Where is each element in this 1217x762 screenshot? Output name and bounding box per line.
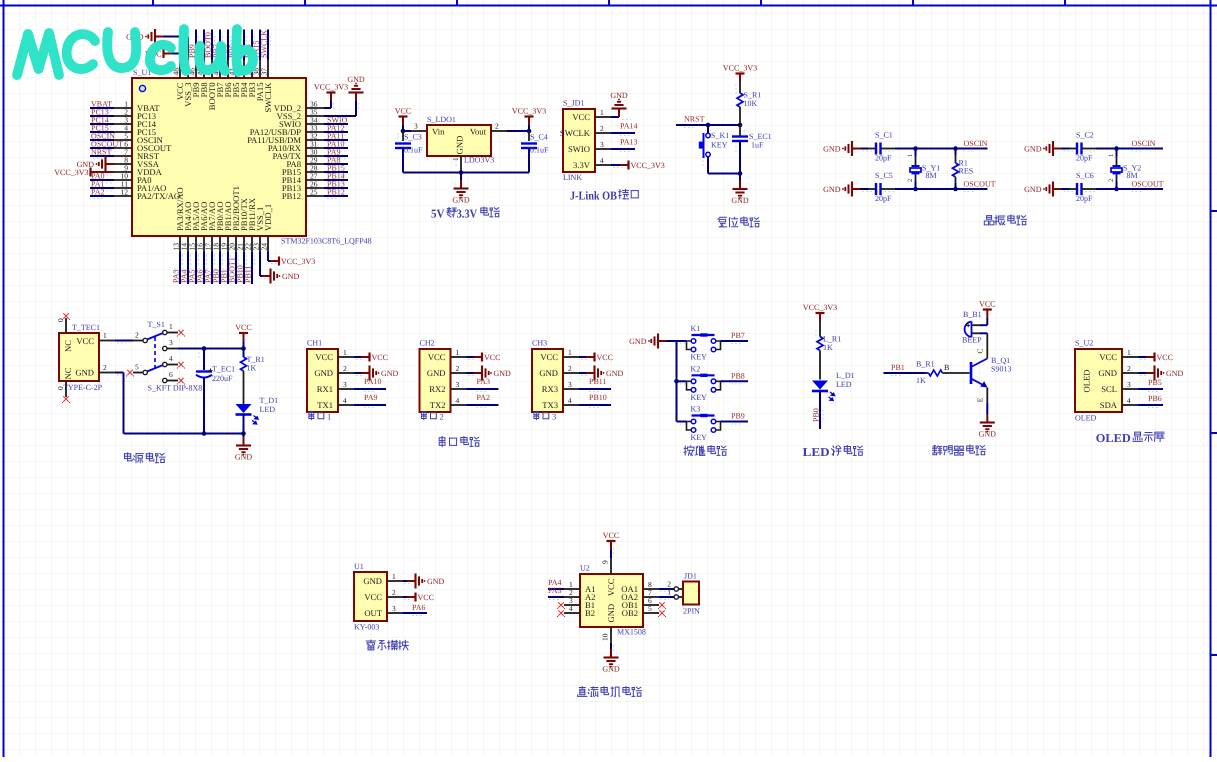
wire OSCOUT rail [1096, 188, 1163, 190]
wire pin 34 [324, 123, 348, 125]
wire K3 to PB9 [721, 421, 749, 423]
crystal S_Y2 [1116, 149, 1118, 157]
svg-text:GND: GND [314, 368, 333, 378]
U2 OLED pin 1 VCC [1122, 356, 1138, 358]
wire pin 26 [324, 187, 348, 189]
svg-text:VCC: VCC [395, 107, 411, 116]
power port VCC (power circuit) [243, 334, 245, 342]
svg-text:9: 9 [601, 560, 610, 564]
svg-text:PA2: PA2 [91, 188, 105, 197]
wire U1 pin 48 to VCC [172, 53, 180, 55]
U1 pin 40 PB4 [243, 60, 245, 78]
svg-text:LED: LED [260, 405, 276, 414]
svg-text:GND: GND [606, 369, 624, 378]
capacitor S_C5 [861, 188, 869, 190]
power port VCC (motor) [610, 542, 612, 550]
U2 OLED pin 4 SDA [1122, 404, 1138, 406]
power port VCC (hall) [407, 596, 415, 598]
U2 pin 7 OA2 [643, 596, 659, 598]
title power circuit [125, 453, 133, 461]
wire bus to K1 [677, 340, 687, 342]
wire OLED pin4 [1138, 404, 1163, 406]
connector T_TEC1 body [59, 333, 99, 381]
TEC1 pin 2 GND [99, 372, 115, 374]
svg-text:S_C2: S_C2 [1076, 131, 1094, 140]
svg-text:S_C3: S_C3 [404, 133, 422, 142]
wire ground loop [115, 372, 124, 374]
ground (S_C5) [853, 188, 861, 190]
svg-text:GND: GND [1098, 368, 1117, 378]
svg-text:1: 1 [667, 588, 671, 597]
svg-text:B: B [944, 363, 949, 372]
svg-text:PB7: PB7 [731, 331, 745, 340]
svg-text:37: 37 [260, 68, 269, 76]
U1 pin 34 SWIO [306, 123, 324, 125]
wire OA1 to JD1 pin2 [659, 588, 674, 590]
svg-text:S_C6: S_C6 [1076, 171, 1094, 180]
wire U1 pin 36 to VCC_3V3 [324, 107, 331, 109]
svg-text:1K: 1K [247, 364, 257, 373]
U1 pin 32 PA11/USB/DM [306, 139, 324, 141]
svg-text:VCC_3V3: VCC_3V3 [803, 303, 837, 312]
svg-text:B2: B2 [585, 608, 595, 618]
label serial port 2 [421, 411, 426, 420]
svg-text:U2: U2 [580, 564, 590, 573]
svg-text:GND: GND [823, 185, 841, 194]
power port VCC_3V3 (LDO output) [528, 117, 530, 125]
svg-text:5: 5 [648, 604, 652, 613]
wire pin 31 [324, 147, 348, 149]
svg-text:K1: K1 [691, 324, 701, 333]
svg-text:5: 5 [135, 363, 139, 372]
svg-text:20pF: 20pF [875, 194, 892, 203]
svg-text:20pF: 20pF [1076, 154, 1093, 163]
wire pin 39 [251, 30, 253, 61]
svg-text:GND: GND [1024, 144, 1042, 153]
title key circuit [684, 446, 694, 456]
junction [459, 170, 464, 175]
wire pin 7 [90, 155, 114, 157]
power port VCC_3V3 at U1 pin 24 [271, 260, 279, 262]
junction [913, 146, 918, 151]
wire U1 pin 23 VSS_1 to GND [259, 252, 261, 276]
wire pin 30 [324, 155, 348, 157]
svg-text:VCC_3V3: VCC_3V3 [631, 161, 665, 170]
CH1 pin 4 TX1 [338, 404, 354, 406]
ground at U1 pin 35 [355, 93, 357, 101]
CH1 pin 1 VCC [338, 356, 354, 358]
svg-text:GND: GND [539, 368, 558, 378]
wire pin 45 [203, 30, 205, 61]
driver U2 body [580, 574, 643, 627]
wire JD1 pin1 to GND [611, 116, 619, 118]
svg-text:T_EC1: T_EC1 [212, 365, 235, 374]
svg-text:PB5: PB5 [1148, 378, 1162, 387]
U1 pin 9 VDDA [114, 171, 132, 173]
svg-text:GND: GND [381, 369, 399, 378]
no-ERC cross [127, 370, 132, 375]
svg-text:PB11: PB11 [244, 266, 253, 284]
wire reset bottom [708, 173, 740, 175]
wire CH2 pin2 to GND [467, 372, 474, 374]
svg-text:BEEP: BEEP [962, 336, 982, 345]
U2 pin 1 A1 [564, 588, 580, 590]
CH3 pin 1 VCC [563, 356, 579, 358]
svg-text:T_S1: T_S1 [148, 320, 165, 329]
title hall module [366, 640, 376, 650]
wire U1 pin 35 to GND [324, 115, 356, 117]
svg-text:0.1uF: 0.1uF [530, 146, 549, 155]
connector CH2 body [420, 349, 451, 412]
wire buzzer top to VCC [980, 324, 987, 326]
junction [738, 171, 743, 176]
LED T_D1 [236, 404, 252, 413]
wire U1 pin 24 VDD_1 to VCC_3V3 [267, 252, 269, 261]
svg-text:KEY: KEY [711, 141, 728, 150]
S1 pin 2 [133, 340, 143, 342]
svg-text:3: 3 [456, 380, 460, 389]
svg-text:3: 3 [169, 338, 173, 347]
wire CH3 pin3 [579, 388, 611, 390]
svg-text:CH2: CH2 [420, 339, 435, 348]
svg-text:GND: GND [602, 665, 620, 674]
crystal S_Y1 [915, 149, 917, 157]
svg-text:VCC: VCC [428, 352, 446, 362]
svg-text:OUT: OUT [364, 608, 382, 618]
ground (hall) [407, 580, 415, 582]
wire pin 5 [90, 139, 114, 141]
wire hall pin2 to VCC [403, 596, 407, 598]
power port VCC (LDO input) [402, 117, 404, 125]
svg-text:1: 1 [327, 411, 331, 421]
svg-text:GND: GND [731, 196, 749, 205]
capacitor S_C2 [1062, 148, 1070, 150]
svg-text:2: 2 [907, 179, 914, 182]
U1 pin 22 PB11/RX [251, 236, 253, 252]
CH2 pin 3 RX2 [451, 388, 467, 390]
LDO S_LDO1 body [427, 125, 491, 156]
svg-text:5V: 5V [431, 207, 445, 221]
svg-text:3: 3 [343, 380, 347, 389]
wire pin 10 [90, 179, 114, 181]
U1 pin 23 VSS_1 [259, 236, 261, 252]
MCUclub logo [17, 29, 253, 75]
svg-text:GND: GND [75, 368, 94, 378]
U1 pin 28 PB15 [306, 171, 324, 173]
svg-text:GND: GND [979, 430, 997, 439]
svg-text:TYPE-C-2P: TYPE-C-2P [63, 383, 103, 392]
U1 pin 11 PA1/AO [114, 187, 132, 189]
U2 pin 4 B2 [564, 612, 580, 614]
svg-text:3: 3 [568, 380, 572, 389]
U1 pin 46 PB9 [195, 60, 197, 78]
svg-text:1: 1 [343, 348, 347, 357]
svg-text:3: 3 [392, 604, 396, 613]
connector CH3 body [532, 349, 563, 412]
svg-text:B_B1: B_B1 [963, 310, 982, 319]
label serial port 3 [534, 411, 539, 420]
U1 pin 8 ground symbol [106, 163, 114, 165]
junction [527, 129, 532, 134]
junction [913, 187, 918, 192]
snap marks (decorative) [93, 110, 104, 112]
svg-text:SDA: SDA [1100, 400, 1118, 410]
svg-text:K2: K2 [691, 364, 701, 373]
junction [953, 187, 958, 192]
wire pin 1 [90, 107, 114, 109]
svg-text:VCC_3V3: VCC_3V3 [281, 257, 315, 266]
S1 arm upper [147, 333, 163, 340]
wire LDO ground rail [403, 172, 529, 174]
JD1 pin 1 [674, 595, 678, 599]
svg-text:RES: RES [959, 167, 974, 176]
title DC motor circuit [578, 687, 587, 697]
U1 pin 41 PB5 [235, 60, 237, 78]
svg-text:2: 2 [600, 124, 604, 133]
resistor L_R1 [819, 322, 821, 337]
svg-text:1: 1 [169, 322, 173, 331]
svg-text:Vout: Vout [470, 127, 487, 137]
ground (LDO) [460, 180, 462, 188]
junction [738, 123, 743, 128]
ground (CH1) [361, 372, 369, 374]
svg-text:GND: GND [455, 136, 465, 155]
svg-text:VCC_3V3: VCC_3V3 [723, 64, 757, 73]
svg-text:Vin: Vin [432, 127, 445, 137]
U2 OLED pin 3 SCL [1122, 388, 1138, 390]
wire CH3 pin4 [579, 404, 611, 406]
svg-text:GND: GND [823, 144, 841, 153]
capacitor T_EC1 electrolytic [203, 349, 205, 371]
svg-text:4: 4 [568, 396, 572, 405]
connector JD1 body [683, 582, 699, 605]
S1 pin 5 [133, 372, 143, 374]
U1 pin 29 PA8 [306, 163, 324, 165]
svg-text:1: 1 [103, 331, 107, 340]
svg-text:GND: GND [1024, 185, 1042, 194]
wire pin 12 [90, 195, 114, 197]
hall U1 pin 3 OUT [387, 612, 403, 614]
svg-text:MX1508: MX1508 [617, 628, 646, 637]
svg-text:L_D1: L_D1 [836, 371, 855, 380]
svg-text:KEY: KEY [691, 393, 708, 402]
svg-text:S_C5: S_C5 [875, 171, 893, 180]
wire pin 46 [195, 30, 197, 61]
svg-text:PA14: PA14 [620, 122, 638, 131]
svg-text:PA9: PA9 [364, 393, 378, 402]
wire pin 41 [235, 30, 237, 61]
ground at U1 pin 23 [262, 275, 270, 277]
ground (S_C6) [1054, 188, 1062, 190]
U1 pin 5 OSCIN [114, 139, 132, 141]
svg-text:VCC_3V3: VCC_3V3 [314, 83, 348, 92]
ground (S_C1) [853, 148, 861, 150]
svg-text:2: 2 [440, 411, 444, 421]
CH3 pin 4 TX3 [563, 404, 579, 406]
wire pin 15 [195, 252, 197, 284]
LDO S_LDO1 pin 3 Vin [411, 130, 427, 132]
svg-text:6: 6 [169, 370, 173, 379]
svg-text:2: 2 [1127, 364, 1131, 373]
U1 pin 31 PA10/RX [306, 147, 324, 149]
buzzer B_B1 [972, 324, 981, 326]
svg-text:RX3: RX3 [542, 384, 558, 394]
svg-text:1uF: 1uF [751, 141, 764, 150]
U1 pin 47 VSS_3 [187, 60, 189, 78]
JD1 pin 4 3.3V [595, 164, 611, 166]
svg-text:2: 2 [1108, 179, 1115, 182]
U1 pin 21 PB10/TX [243, 236, 245, 252]
svg-text:LED: LED [803, 445, 830, 459]
svg-text:2: 2 [495, 122, 499, 131]
wire JD1 pin2 PA14 [611, 132, 635, 134]
svg-text:STM32F103C8T6_LQFP48: STM32F103C8T6_LQFP48 [281, 237, 372, 246]
svg-text:3.3V: 3.3V [457, 207, 478, 221]
wire CH3 pin1 to VCC [579, 356, 586, 358]
ground (keys) [659, 340, 667, 342]
U1 pin 12 PA2/TX/AO [114, 195, 132, 197]
power port VCC (OLED) [1146, 356, 1154, 358]
svg-text:VCC_3V3: VCC_3V3 [54, 168, 88, 177]
wire buzzer bottom to collector [980, 332, 987, 334]
svg-text:PA3: PA3 [477, 377, 491, 386]
svg-text:JD1: JD1 [684, 572, 697, 581]
svg-text:OSCIN: OSCIN [964, 139, 988, 148]
svg-text:OSCOUT: OSCOUT [1132, 180, 1164, 189]
no-ERC cross OB1 [659, 602, 664, 607]
svg-text:2: 2 [343, 364, 347, 373]
ground (reset) [739, 181, 741, 189]
svg-text:CH1: CH1 [307, 339, 322, 348]
svg-text:PB12: PB12 [282, 191, 301, 201]
resistor T_R1 [243, 349, 245, 358]
svg-text:K3: K3 [691, 405, 701, 414]
svg-text:1: 1 [600, 108, 604, 117]
wire pin 16 [203, 252, 205, 284]
svg-text:NRST: NRST [684, 115, 705, 124]
wire VCC to U2 pin9 [610, 550, 612, 559]
hall U1 pin 1 GND [387, 580, 403, 582]
svg-text:PB12: PB12 [327, 188, 345, 197]
U1 pin 25 PB12 [306, 195, 324, 197]
wire K1 to PB7 [721, 340, 749, 342]
svg-text:3: 3 [414, 122, 418, 131]
svg-text:2: 2 [103, 363, 107, 372]
wire JD1 pin3 PA13 [611, 148, 635, 150]
wire OSCOUT rail [895, 188, 988, 190]
svg-text:GND: GND [347, 75, 365, 84]
junction [202, 346, 207, 351]
U1 pin 42 PB6 [227, 60, 229, 78]
svg-text:25: 25 [310, 188, 318, 197]
CH1 pin 2 GND [338, 372, 354, 374]
svg-text:1: 1 [392, 572, 396, 581]
svg-text:2: 2 [392, 588, 396, 597]
svg-text:RX2: RX2 [429, 384, 445, 394]
svg-text:PB1: PB1 [891, 363, 905, 372]
TEC1 NC pin bottom [65, 381, 67, 397]
svg-text:B_R1: B_R1 [916, 360, 935, 369]
junction [674, 379, 679, 384]
LDO pin 2 Vout [491, 130, 507, 132]
wire K2 to PB8 [721, 380, 749, 382]
no-ERC cross [178, 362, 183, 367]
U2 pin 6 OB1 [643, 604, 659, 606]
svg-text:TX3: TX3 [542, 400, 558, 410]
MCU pin-1 indicator circle [139, 85, 145, 91]
wire OLED pin3 [1138, 388, 1163, 390]
svg-text:SWCLK: SWCLK [560, 128, 591, 138]
wire CH1 pin4 [354, 404, 386, 406]
U1 pin 27 PB14 [306, 179, 324, 181]
U2 pin 3 B1 [564, 604, 580, 606]
U2 pin 2 A2 [564, 596, 580, 598]
label serial port 1 [309, 411, 314, 420]
U2 pin 9 VCC [610, 558, 612, 574]
wire NRST [676, 124, 740, 126]
CH3 pin 2 GND [563, 372, 579, 374]
no-ERC cross B1 [558, 602, 563, 607]
svg-text:PA10: PA10 [364, 377, 382, 386]
power port VCC_3V3 (J-Link) [620, 164, 628, 166]
S1 linkage dashed [154, 337, 156, 369]
capacitor S_C1 [861, 148, 869, 150]
svg-text:SWIO: SWIO [568, 144, 590, 154]
svg-text:OSCIN: OSCIN [1132, 139, 1156, 148]
wire S1 pin3 to VCC node [178, 348, 244, 350]
U1 pin 20 PB2/BOOT1 [235, 236, 237, 252]
U2 pin 10 GND [610, 627, 612, 643]
no-ERC cross [178, 378, 183, 383]
U1 pin 16 PA6/AO [203, 236, 205, 252]
svg-text:2: 2 [456, 364, 460, 373]
wire pin 3 [90, 123, 114, 125]
U1 pin 30 PA9/TX [306, 155, 324, 157]
svg-text:GND: GND [610, 91, 628, 100]
svg-text:PA5: PA5 [548, 586, 562, 595]
svg-text:U1: U1 [354, 562, 364, 571]
S1 pin 3 [163, 346, 167, 350]
no-ERC cross [63, 396, 68, 401]
U1 pin 8 VSSA [114, 163, 132, 165]
JD1 pin 3 SWIO [595, 148, 611, 150]
svg-text:3: 3 [600, 140, 604, 149]
CH1 pin 3 RX1 [338, 388, 354, 390]
wire CH1 pin1 to VCC [354, 356, 361, 358]
ground (OLED) [1146, 372, 1154, 374]
wire VCC to LDO Vin [402, 125, 404, 131]
no-ERC cross OB2 [659, 610, 664, 615]
svg-text:TX2: TX2 [430, 400, 446, 410]
JD1 pin 1 VCC [595, 116, 611, 118]
connector CH1 body [307, 349, 338, 412]
svg-text:OLED: OLED [1096, 431, 1131, 445]
ground (buzzer) [986, 414, 988, 422]
wire collector [986, 333, 988, 358]
svg-text:4: 4 [1127, 396, 1131, 405]
U1 pin 3 PC14 [114, 123, 132, 125]
wire Vout to VCC_3V3 [507, 130, 529, 132]
junction [1114, 146, 1119, 151]
wire pin 19 [227, 252, 229, 284]
wire pin 32 [324, 139, 348, 141]
svg-text:2PIN: 2PIN [683, 607, 700, 616]
svg-text:PB0: PB0 [812, 408, 821, 422]
svg-text:OLED: OLED [1082, 370, 1092, 393]
power port VCC_3V3 (reset) [739, 74, 741, 82]
U1 pin 14 PA4/AO [187, 236, 189, 252]
U1 pin 37 SWCLK [267, 60, 269, 78]
